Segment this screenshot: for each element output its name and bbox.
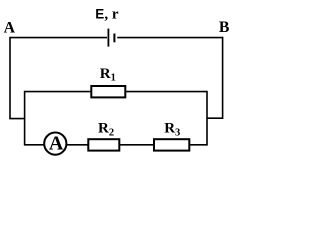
wire: bottom branch horizontal through ammeter, R2, R3	[25, 144, 207, 146]
wire: left outer vertical from A down with stub to inner rail	[10, 37, 25, 119]
wire: right outer vertical from B down with stub to inner rail	[207, 37, 223, 118]
svg-text:E, r: E, r	[95, 6, 119, 22]
battery E,r (cell symbol)	[108, 29, 116, 47]
wire: top-left from node A to battery	[10, 37, 107, 39]
svg-text:B: B	[219, 19, 230, 36]
ammeter A	[44, 133, 66, 155]
wire: inner right vertical rail	[206, 91, 208, 146]
resistor R1	[91, 86, 125, 97]
svg-text:A: A	[4, 19, 16, 36]
resistor R3	[154, 139, 189, 150]
resistor R2	[88, 139, 119, 150]
wire: middle branch horizontal through R1	[25, 91, 207, 93]
wire: top-right from battery to node B	[117, 37, 222, 39]
svg-text:A: A	[49, 133, 64, 155]
wire: inner left vertical rail	[24, 91, 26, 146]
